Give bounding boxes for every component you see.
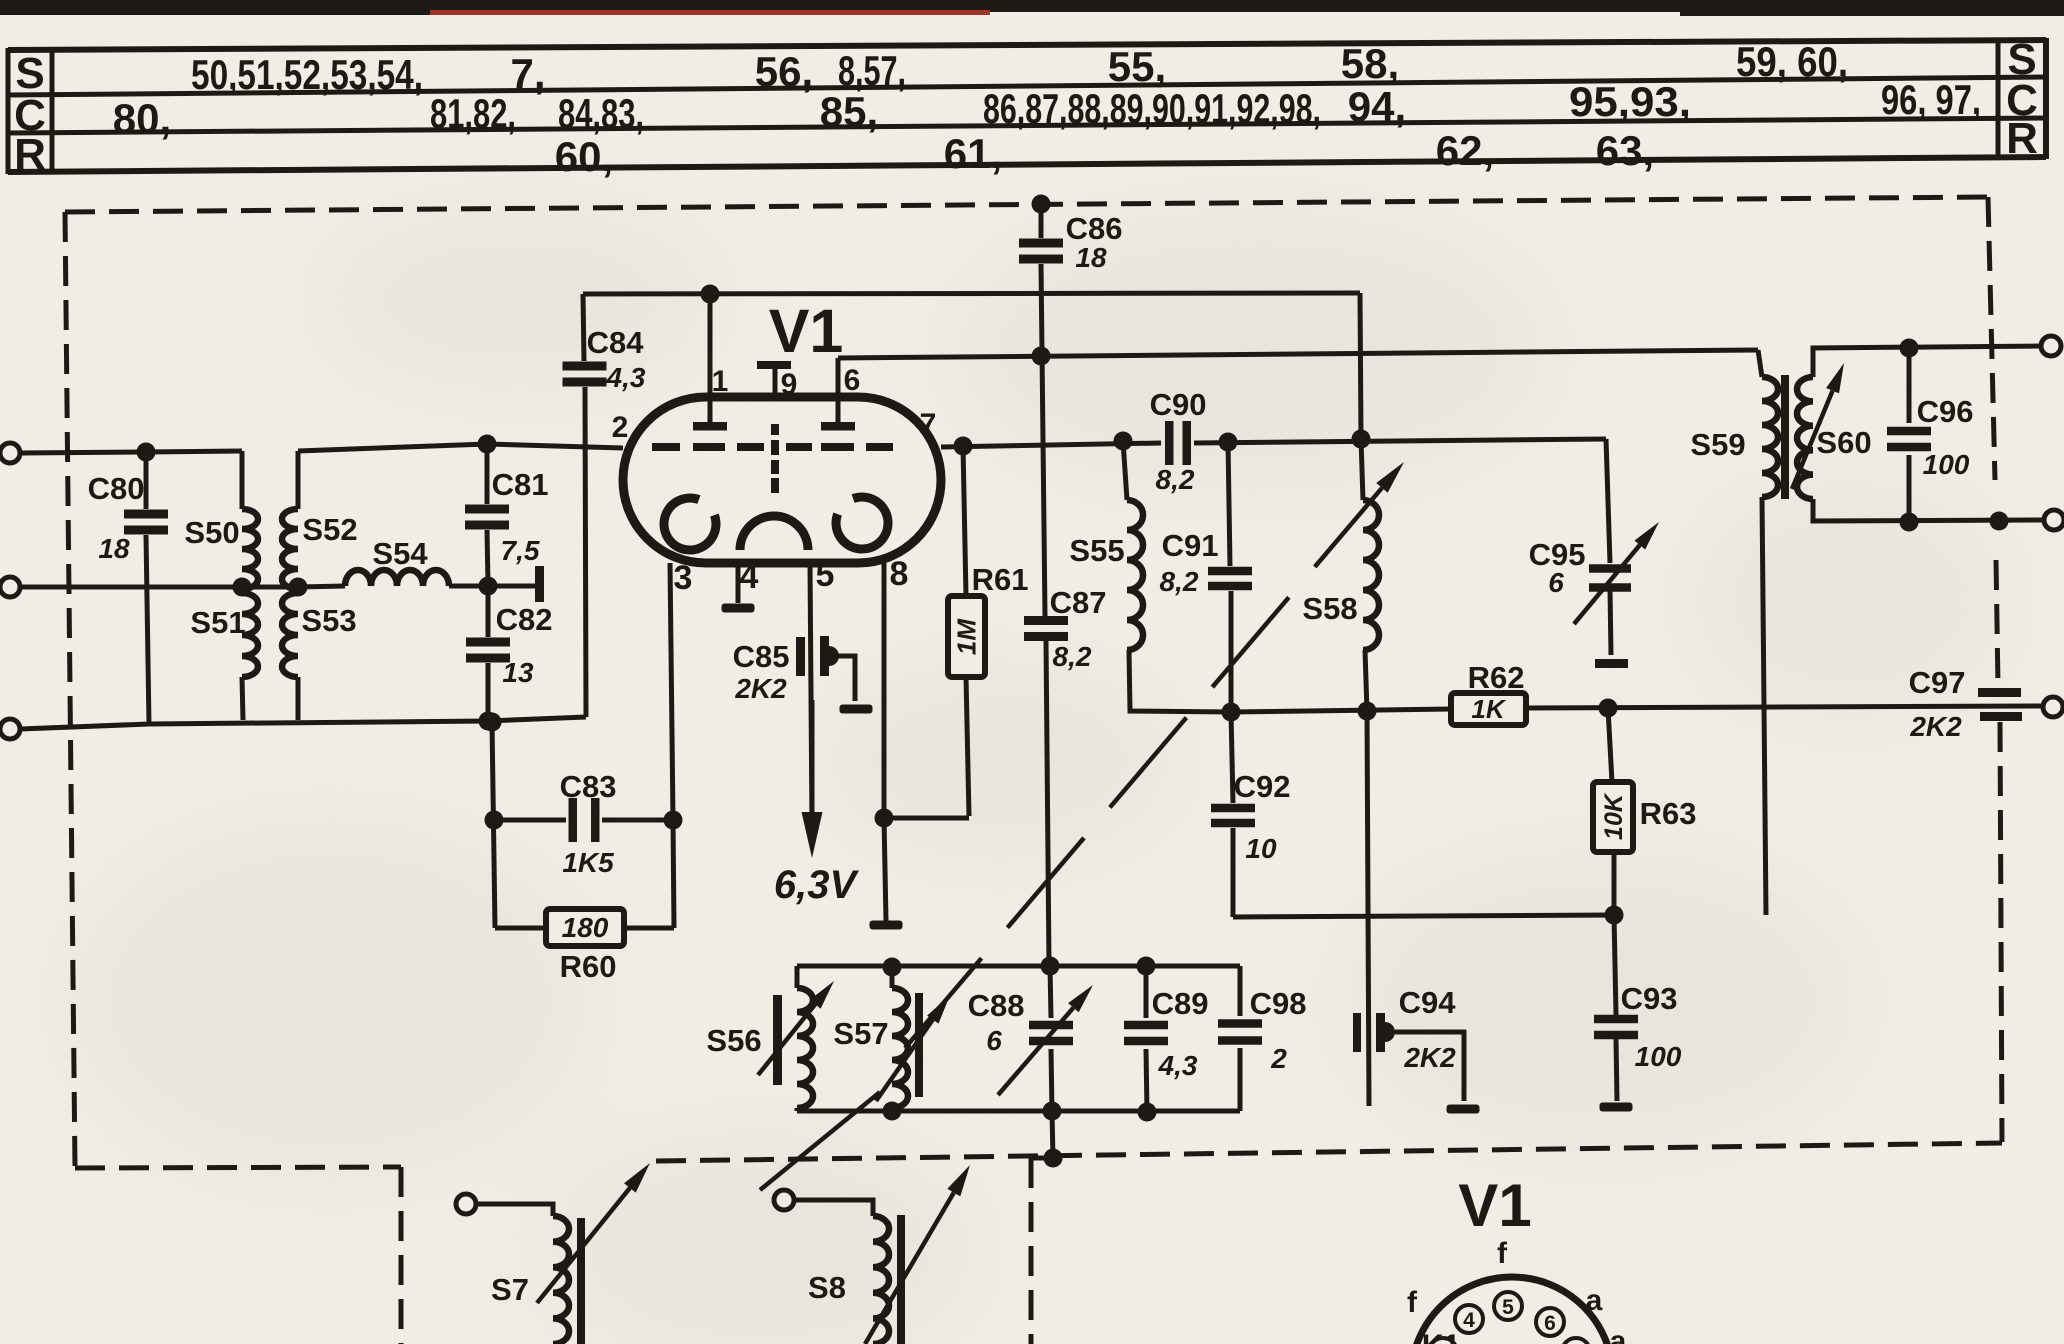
svg-text:96, 97,: 96, 97, [1881,76,1981,123]
svg-text:8: 8 [890,555,909,593]
svg-text:4: 4 [1463,1309,1475,1332]
svg-text:8,2: 8,2 [1053,641,1092,672]
svg-text:81,82,: 81,82, [430,90,516,137]
svg-text:C89: C89 [1152,986,1209,1021]
svg-text:C93: C93 [1621,981,1678,1016]
svg-text:6: 6 [986,1025,1002,1056]
svg-text:80,: 80, [113,95,171,142]
svg-text:8,2: 8,2 [1160,566,1199,597]
svg-text:C91: C91 [1162,528,1219,563]
svg-text:85,: 85, [820,88,878,135]
svg-text:C90: C90 [1150,387,1207,422]
svg-text:R61: R61 [972,562,1029,597]
svg-text:100: 100 [1923,449,1970,480]
svg-text:C82: C82 [496,602,553,637]
svg-text:60,: 60, [555,133,613,180]
svg-text:C84: C84 [587,325,645,360]
svg-text:2: 2 [1270,1043,1287,1074]
svg-text:S53: S53 [301,603,356,638]
svg-text:18: 18 [98,533,130,564]
svg-text:58,: 58, [1341,40,1399,87]
svg-text:S58: S58 [1302,591,1357,626]
svg-text:S60: S60 [1816,425,1871,460]
svg-text:2: 2 [612,411,629,444]
svg-text:18: 18 [1075,242,1107,273]
svg-text:4: 4 [740,558,759,596]
svg-text:50,51,52,53,54,: 50,51,52,53,54, [191,51,423,98]
svg-text:62,: 62, [1436,127,1494,174]
svg-text:S56: S56 [706,1023,761,1058]
svg-text:1K: 1K [1471,694,1506,724]
svg-text:6: 6 [1544,1312,1556,1335]
svg-text:R60: R60 [560,949,617,984]
svg-text:94,: 94, [1348,83,1406,130]
svg-text:100: 100 [1635,1041,1682,1072]
svg-text:S57: S57 [833,1016,888,1051]
svg-text:6,3V: 6,3V [774,863,860,907]
svg-text:S8: S8 [808,1270,846,1305]
svg-text:2K2: 2K2 [1909,711,1962,742]
svg-text:a: a [1586,1284,1603,1317]
svg-text:C86: C86 [1066,211,1123,246]
svg-text:f: f [1407,1286,1418,1319]
svg-text:S51: S51 [190,605,245,640]
svg-text:f: f [1497,1237,1508,1270]
svg-text:55,: 55, [1108,43,1166,90]
svg-text:56,: 56, [755,48,813,95]
svg-text:4,3: 4,3 [606,362,646,393]
svg-text:R: R [14,130,46,179]
svg-text:C80: C80 [88,471,145,506]
svg-text:4,3: 4,3 [1158,1050,1198,1081]
svg-text:C96: C96 [1917,394,1974,429]
svg-text:1: 1 [712,365,729,398]
svg-text:8,57,: 8,57, [838,47,906,94]
svg-text:C92: C92 [1234,769,1291,804]
svg-text:13: 13 [502,657,534,688]
svg-text:1K5: 1K5 [562,847,614,878]
svg-text:2K2: 2K2 [734,673,787,704]
svg-text:a: a [1610,1325,1627,1344]
svg-text:180: 180 [562,912,609,943]
svg-text:S55: S55 [1069,533,1124,568]
svg-text:V1: V1 [1458,1172,1531,1239]
svg-text:7: 7 [920,408,937,441]
svg-text:C85: C85 [733,639,790,674]
svg-text:2K2: 2K2 [1403,1042,1456,1073]
svg-text:10: 10 [1245,833,1277,864]
svg-text:V1: V1 [769,297,844,365]
svg-text:S59: S59 [1690,427,1745,462]
svg-text:R62: R62 [1468,660,1525,695]
svg-text:5: 5 [816,556,835,594]
svg-text:C83: C83 [560,769,617,804]
svg-text:59, 60,: 59, 60, [1736,38,1848,85]
svg-text:C88: C88 [968,988,1025,1023]
svg-text:84,83,: 84,83, [558,90,644,137]
svg-text:S52: S52 [302,512,357,547]
svg-text:C97: C97 [1909,665,1966,700]
svg-text:C94: C94 [1399,985,1457,1020]
svg-text:S7: S7 [491,1272,529,1307]
svg-text:7,5: 7,5 [501,535,540,566]
svg-text:S50: S50 [184,515,239,550]
svg-text:C98: C98 [1250,986,1307,1021]
svg-text:5: 5 [1502,1296,1514,1319]
svg-text:63,: 63, [1596,127,1654,174]
svg-text:9: 9 [781,368,798,401]
svg-text:6: 6 [844,364,861,397]
svg-text:10K: 10K [1600,792,1628,840]
svg-text:1M: 1M [951,618,981,655]
svg-text:86,87,88,89,90,91,92,98,: 86,87,88,89,90,91,92,98, [983,85,1321,132]
svg-text:R63: R63 [1640,796,1697,831]
svg-text:K1: K1 [1422,1329,1460,1344]
svg-text:3: 3 [674,559,693,597]
svg-text:C81: C81 [492,467,549,502]
svg-text:8,2: 8,2 [1156,464,1195,495]
svg-text:6: 6 [1548,567,1564,598]
svg-text:95,93,: 95,93, [1569,78,1691,125]
svg-text:R: R [2006,114,2038,163]
svg-text:C87: C87 [1050,585,1107,620]
svg-text:61,: 61, [944,130,1002,177]
svg-text:S54: S54 [372,536,428,571]
